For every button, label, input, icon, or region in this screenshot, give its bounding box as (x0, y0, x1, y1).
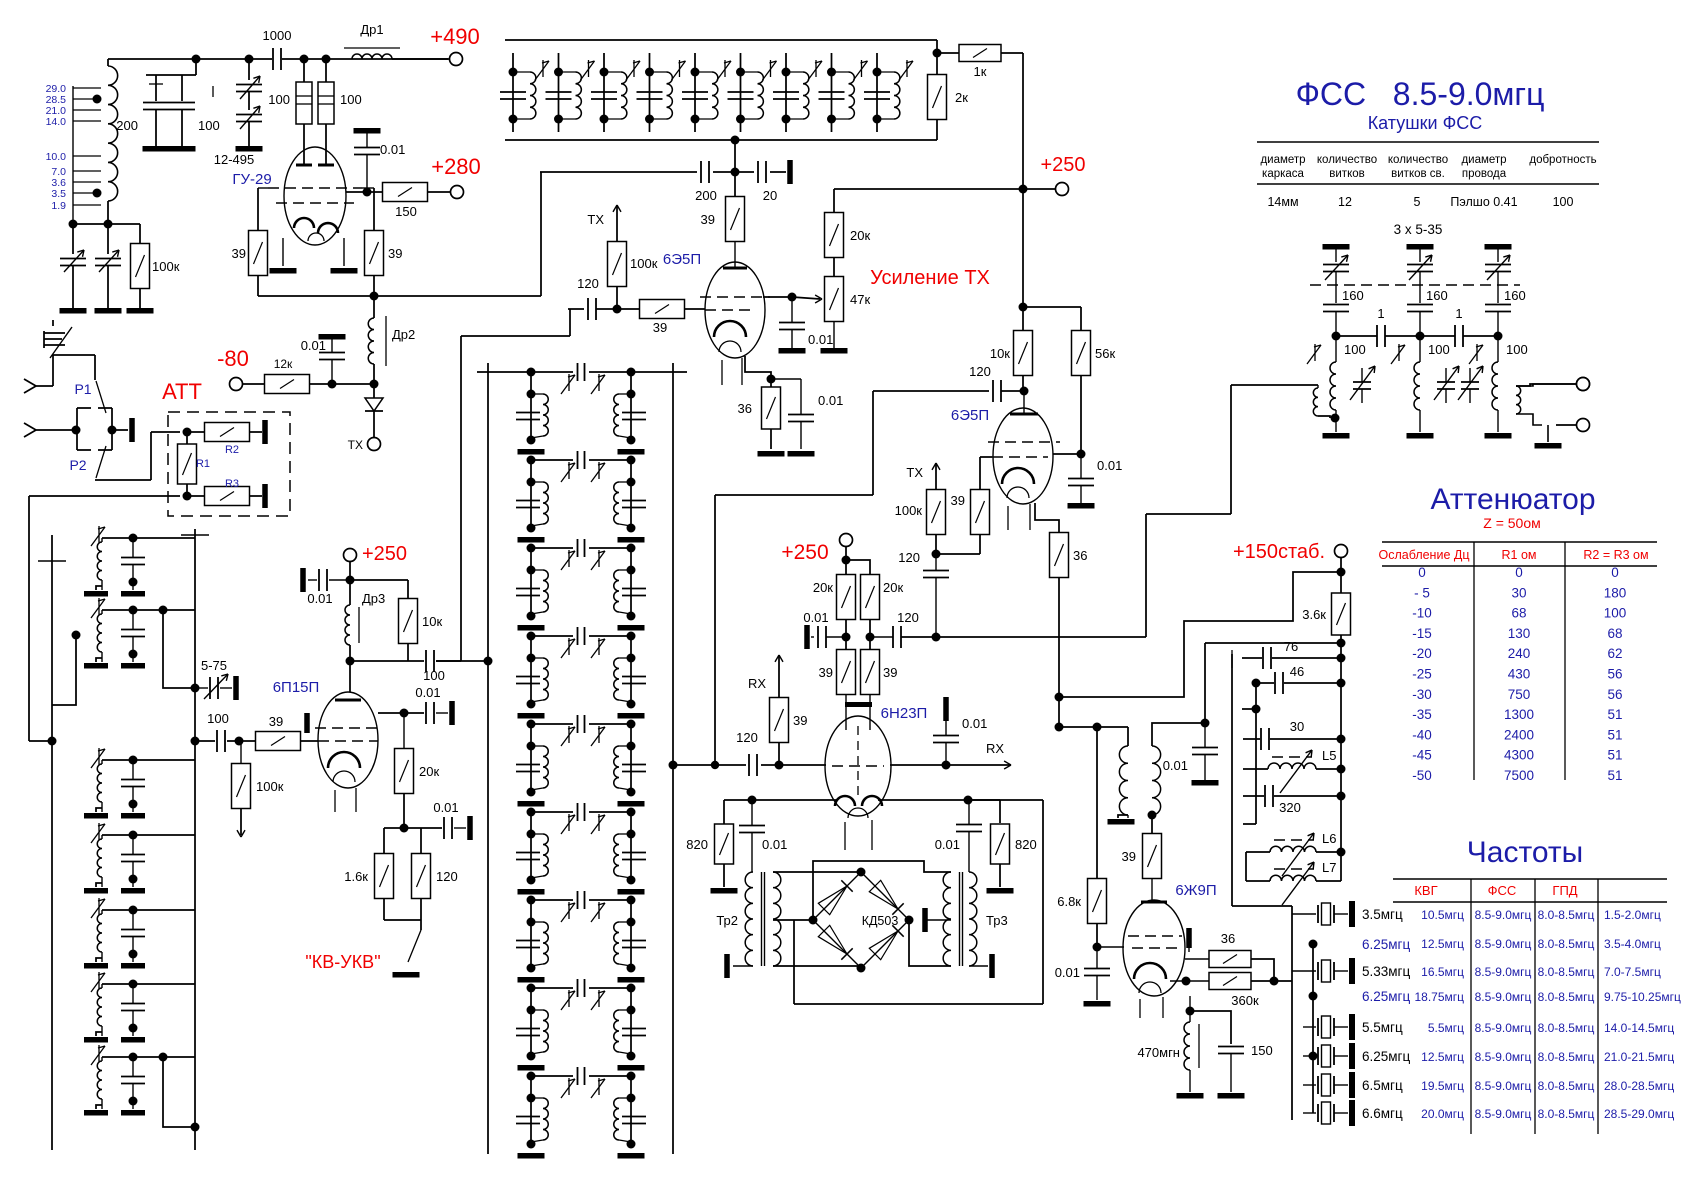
svg-text:3.6к: 3.6к (1302, 607, 1326, 622)
wire lsec1 cap lead2 (132, 565, 134, 590)
junction 1k node (933, 49, 942, 58)
wire osc 36 link (1185, 958, 1209, 960)
junction osc feed (1055, 723, 1064, 732)
wire midsec3 top a (531, 547, 573, 549)
terminator R2 (262, 420, 268, 444)
wire lsec6 gnd jog (96, 1032, 102, 1036)
svg-text:100к: 100к (630, 256, 658, 271)
trimmer lsec3 (91, 748, 105, 768)
svg-text:8.5-9.0мгц: 8.5-9.0мгц (1475, 1107, 1532, 1121)
junction bank tank 7 top (782, 68, 791, 77)
capacitor 320 (1265, 785, 1273, 807)
svg-text:20: 20 (763, 188, 777, 203)
variable capacitor 12-495 a (236, 85, 262, 92)
junction bank tank 8 bottom (827, 115, 836, 124)
junction bank tank 4 bottom (645, 115, 654, 124)
wire bank tank 9 line (876, 53, 878, 132)
svg-text:160: 160 (1342, 288, 1364, 303)
svg-text:6.25мгц: 6.25мгц (1362, 1049, 1410, 1064)
wire xtal6 out (1334, 1055, 1348, 1057)
wire midsec6 coilR bot (619, 876, 631, 878)
svg-text:160: 160 (1504, 288, 1526, 303)
wire midsec7 R1 (630, 900, 632, 968)
ground lsec2 coil (84, 663, 108, 669)
wire midsec6 R1 (630, 812, 632, 880)
junction midsec8 TR (627, 984, 636, 993)
svg-text:100: 100 (1553, 195, 1574, 209)
inductor Dr3 (345, 605, 350, 645)
ground midsec8 L (518, 1065, 545, 1071)
svg-text:68: 68 (1511, 606, 1526, 621)
arrow pot wiper (792, 295, 822, 303)
wire L5 row (1243, 768, 1268, 770)
anode bar L GU-29 (296, 164, 312, 167)
wire lsec2 coil lead (101, 610, 103, 614)
inductor bank tank 5 (712, 72, 718, 119)
svg-text:+250: +250 (1040, 154, 1085, 176)
svg-text:0.01: 0.01 (818, 393, 843, 408)
trimmer midsec6 R (591, 814, 605, 834)
svg-text:L7: L7 (1322, 860, 1336, 875)
wire xtal8 stub (1303, 1112, 1316, 1114)
inductor midsec3 R (614, 570, 619, 612)
capacitor 0.01 anode1 (779, 323, 805, 330)
junction midsec5 BL (527, 788, 536, 797)
rule FSS table top (1257, 141, 1599, 143)
wire bank coil bottom 9 (877, 118, 894, 120)
ground 820L (711, 888, 738, 894)
wire bank top rail (505, 39, 937, 41)
heater lead R st2 (1029, 504, 1031, 530)
svg-text:5-75: 5-75 (201, 658, 227, 673)
svg-text:"КВ-УКВ": "КВ-УКВ" (305, 952, 380, 972)
anode bar R GU-29 (318, 164, 334, 167)
junction xb2 (1309, 992, 1318, 1001)
inductor L5 (1268, 763, 1316, 769)
svg-text:3 x 5-35: 3 x 5-35 (1394, 222, 1443, 237)
wire midsec2 R1 (630, 460, 632, 528)
wire sig to rail (436, 660, 488, 662)
junction osc 0.01 (1201, 719, 1210, 728)
junction lsec4 b (129, 875, 138, 884)
svg-text:6.5мгц: 6.5мгц (1362, 1078, 1403, 1093)
trimmer bank tank 6 (763, 60, 777, 80)
svg-text:6.8к: 6.8к (1057, 894, 1081, 909)
wire xtal7 stub (1303, 1084, 1316, 1086)
svg-text:1: 1 (1455, 306, 1462, 321)
wire cml lead2 (751, 833, 753, 872)
junction midsec6 BL (527, 876, 536, 885)
wire midsec8 coilL top (531, 1009, 543, 1011)
svg-text:-15: -15 (1412, 626, 1432, 641)
wire bus row1 (1205, 642, 1341, 644)
capacitor 120 grid2 (923, 571, 949, 578)
terminal +250 mix (840, 534, 853, 547)
crystal 6.6мгц (1318, 1102, 1334, 1124)
wire cathode path st2 (1035, 503, 1059, 533)
ground midsec8 R (618, 1065, 645, 1071)
wire +150 path (1059, 572, 1341, 697)
ground FSS out (1535, 443, 1562, 449)
terminal +250 st1 (1056, 183, 1069, 196)
svg-text:8.0-8.5мгц: 8.0-8.5мгц (1538, 1021, 1595, 1035)
rule att v2 (1564, 542, 1566, 780)
wire bank to anode (734, 140, 736, 172)
svg-text:8.0-8.5мгц: 8.0-8.5мгц (1538, 937, 1595, 951)
junction bank tank 3 bottom (600, 115, 609, 124)
resistor 6.8k (1088, 879, 1107, 924)
inductor midsec3 L (543, 570, 548, 612)
wire 10k top lead (1022, 307, 1024, 331)
svg-text:39: 39 (793, 713, 807, 728)
capacitor 1 a (1377, 325, 1385, 347)
wire osc feed right (1152, 723, 1205, 746)
svg-text:12.5мгц: 12.5мгц (1421, 937, 1464, 951)
wire 0.01pa2 out (436, 712, 448, 714)
wire FSS b3 v4 (1497, 410, 1499, 432)
wire midsec9 R1 (630, 1076, 632, 1144)
junction rail grid pa (191, 737, 200, 746)
heater arc osc (1139, 982, 1161, 993)
capacitor midsec9 L (516, 1117, 540, 1124)
wire cath osc down (1189, 996, 1191, 1011)
resistor 820 R (991, 824, 1010, 864)
capacitor 0.01 oscg (1084, 969, 1110, 976)
terminator xtal5 (1349, 1014, 1355, 1040)
wire 56k down (1080, 375, 1082, 454)
junction midsec5 CL (527, 742, 536, 751)
wire L5 out (1316, 768, 1341, 770)
cathode arc osc (1134, 963, 1166, 979)
svg-text:АТТ: АТТ (162, 379, 202, 404)
wire FSS c2 (1420, 335, 1455, 337)
wire 0.01 screen lead (366, 133, 368, 147)
svg-text:10.0: 10.0 (46, 151, 67, 163)
capacitor coupling midsec9 (578, 1067, 585, 1085)
terminator xtal3 (1349, 958, 1355, 984)
ground 100k antenna (127, 308, 154, 314)
wire path grid1 v (460, 336, 462, 661)
ground 0.01 screen flipped (354, 128, 381, 134)
wire midsec1 coilL top (531, 393, 543, 395)
screen line GU-29 (276, 202, 354, 204)
svg-text:0.01: 0.01 (301, 338, 326, 353)
wire midsec5 L1 (530, 724, 532, 792)
junction grid2 bot (932, 550, 941, 559)
svg-text:16.5мгц: 16.5мгц (1421, 965, 1464, 979)
junction midsec9 CL (527, 1094, 536, 1103)
tube 6E5P 1 (705, 262, 765, 358)
wire 150 gnd lead (1230, 1054, 1232, 1092)
terminator 20 (787, 160, 793, 184)
terminator 0.01 pa2 (449, 701, 455, 725)
svg-text:120: 120 (898, 550, 920, 565)
svg-text:150: 150 (1251, 1043, 1273, 1058)
junction FSS 2 (1416, 332, 1425, 341)
svg-text:8.0-8.5мгц: 8.0-8.5мгц (1538, 1050, 1595, 1064)
junction bank tank 5 bottom (691, 115, 700, 124)
junction midsec2 BL (527, 524, 536, 533)
wire 0.01rx lead (945, 714, 947, 735)
trimmer midsec1 L (561, 374, 575, 394)
svg-text:36: 36 (1221, 931, 1235, 946)
ground midsec6 L (518, 889, 545, 895)
wire FSS b3 v1 (1497, 249, 1499, 262)
wire leftcol rail L (51, 535, 53, 1150)
grid2 line pa (318, 740, 378, 742)
tick crossing 76 (1231, 650, 1233, 668)
capacitor bank tank 5 (682, 92, 708, 99)
wire 0.01osc lead2 (1204, 755, 1206, 780)
terminal FSS out1 (1577, 378, 1590, 391)
heater lead mix L (844, 822, 846, 850)
resistor 3.6k (1332, 593, 1351, 635)
wire bank tank 8 line (831, 53, 833, 132)
svg-text:6Н23П: 6Н23П (881, 705, 928, 722)
grid line mix (832, 765, 884, 767)
svg-text:51: 51 (1607, 748, 1622, 763)
svg-text:820: 820 (1015, 837, 1037, 852)
wire lsec6 coil gnd (101, 1026, 103, 1036)
wire midsec8 R1 (630, 988, 632, 1056)
junction midsec7 CL (527, 918, 536, 927)
heater arc GU-29 (308, 233, 324, 241)
wire xtal3 stub (1292, 970, 1316, 972)
rule att top (1382, 541, 1657, 543)
junction +280 (363, 188, 372, 197)
wire grid L lead (258, 187, 268, 189)
capacitor 120 mix (749, 754, 757, 776)
resistor 47k pot (825, 277, 844, 322)
svg-text:36: 36 (738, 401, 752, 416)
wire mix bottom L (793, 920, 795, 1004)
junction midsec9 TR (627, 1072, 636, 1081)
capacitor midsec4 R (622, 677, 646, 684)
heater arc pa (333, 771, 355, 782)
wire 46 row (1256, 682, 1274, 684)
capacitor coupling midsec7 (578, 891, 585, 909)
wire +250mix右 (846, 560, 870, 575)
junction midsec7 BR (627, 964, 636, 973)
wire tap 10.0 (73, 155, 101, 157)
svg-text:10.5мгц: 10.5мгц (1421, 908, 1464, 922)
capacitor bank tank 7 (773, 92, 799, 99)
wire FSS b1 v4 (1335, 410, 1337, 432)
junction 46 L (1252, 679, 1261, 688)
svg-text:R1: R1 (196, 458, 210, 470)
capacitor coupling midsec8 (578, 979, 585, 997)
svg-text:51: 51 (1607, 707, 1622, 722)
junction lsec1 b (129, 578, 138, 587)
wire Tr2 sec bot link (773, 965, 861, 967)
wire 2k bottom (936, 119, 938, 140)
wire bank coil top 4 (650, 71, 667, 73)
wire 12-495 gnd lead (248, 122, 250, 146)
wire bank coil top 5 (695, 71, 712, 73)
heater lead R 6E5P1 (741, 358, 743, 385)
resistor 39 mix (770, 698, 789, 743)
junction bias A (328, 380, 337, 389)
inductor bank tank 1 (530, 72, 536, 119)
ground cap100 (169, 146, 196, 152)
junction rail 5-75 (191, 684, 200, 693)
junction bank tank 6 bottom (736, 115, 745, 124)
wire inj to FSS (1231, 384, 1318, 386)
svg-text:0.01: 0.01 (307, 591, 332, 606)
arrow 12-495 b (240, 106, 260, 129)
svg-text:39: 39 (1122, 849, 1136, 864)
svg-text:3.5-4.0мгц: 3.5-4.0мгц (1604, 937, 1661, 951)
wire 120st2 out (1001, 390, 1024, 392)
capacitor 0.01 mix (818, 626, 826, 648)
inductor FSS input (1313, 388, 1318, 416)
wire 47k bottom (833, 321, 835, 348)
wire grid R down (373, 188, 375, 231)
wire midsec4 R1 (630, 636, 632, 704)
svg-text:0.01: 0.01 (1055, 965, 1080, 980)
svg-text:0: 0 (1418, 565, 1426, 580)
inductor bank tank 7 (803, 72, 809, 119)
junction midsec3 BR (627, 612, 636, 621)
svg-text:6Э5П: 6Э5П (663, 251, 701, 268)
wire lsec6 top (102, 983, 195, 985)
resistor 820 L (715, 824, 734, 864)
wire FSS c1b (1385, 335, 1420, 337)
resistor 1k (959, 45, 1001, 62)
wire midsec5 coilR top (619, 745, 631, 747)
wire R3 right lead (249, 495, 262, 497)
resistor 36 cath1 (762, 387, 781, 429)
wire div to node (870, 636, 893, 638)
svg-text:30: 30 (1290, 719, 1304, 734)
wire Dr1 core (344, 47, 400, 49)
wire path grid1 h (461, 335, 570, 337)
wire midsec6 coilL bot (531, 876, 543, 878)
wire cath1 (742, 362, 771, 379)
cathode arc 6E5P1 (714, 321, 746, 337)
svg-text:Тр3: Тр3 (986, 913, 1008, 928)
wire 120 drop (872, 391, 874, 495)
rule freq v3 (1597, 879, 1599, 1134)
svg-text:9.75-10.25мгц: 9.75-10.25мгц (1604, 990, 1681, 1004)
ground 0.01 anode1 (779, 348, 806, 354)
svg-text:+150стаб.: +150стаб. (1233, 541, 1325, 563)
wire varcap1 lead (72, 224, 74, 254)
resistor 39 osc (1143, 834, 1162, 879)
wire midsec4 top a (531, 635, 573, 637)
wire midsec2 top b (589, 459, 631, 461)
terminal FSS out2 (1577, 419, 1590, 432)
svg-text:20.0мгц: 20.0мгц (1421, 1107, 1464, 1121)
wire midsec4 coilL bot (531, 700, 543, 702)
svg-text:P1: P1 (74, 381, 91, 397)
junction kat pa (400, 824, 409, 833)
inductor L7 (1270, 875, 1316, 881)
wire osc prim gnd (1118, 815, 1128, 818)
wire FSS out bot (1516, 414, 1542, 425)
trimmer midsec3 L (561, 550, 575, 570)
svg-text:6Э5П: 6Э5П (951, 407, 989, 424)
resistor 36 st2 (1050, 533, 1069, 578)
svg-text:100: 100 (268, 92, 290, 107)
svg-text:7500: 7500 (1504, 768, 1534, 783)
capacitor 120 st2 (993, 380, 1001, 402)
wire FSS b2 v2 (1419, 272, 1421, 303)
terminal +490 (450, 53, 463, 66)
inductor midsec4 R (614, 658, 619, 700)
junction ATT rail (48, 737, 57, 746)
junction lsec2 cap (129, 606, 138, 615)
wire lsec2 cap lead2 (132, 637, 134, 662)
junction midsec7 CR (627, 918, 636, 927)
svg-text:0: 0 (1515, 565, 1523, 580)
trimmer bank tank 9 (899, 60, 913, 80)
wire lsec4 cap lead2 (132, 862, 134, 887)
junction top rail B (245, 55, 254, 64)
ground cap200 (143, 146, 170, 152)
wire 36 gnd (770, 429, 772, 449)
wire FSS out2 lead (1556, 424, 1576, 426)
terminator 0.01 mix (804, 625, 810, 649)
wire midsec8 L1 (530, 988, 532, 1056)
wire 39pa to tube (300, 740, 318, 742)
resistor 39 grid L (249, 231, 268, 276)
wire cap feed row (146, 74, 196, 76)
wire ant1 up (52, 355, 54, 386)
wire bank coil top 9 (877, 71, 894, 73)
svg-text:+250: +250 (362, 543, 407, 565)
svg-text:10к: 10к (990, 346, 1010, 361)
wire midsec4 coilR top (619, 657, 631, 659)
ground lsec3 coil (84, 813, 108, 819)
variable capacitor FSS 3 (1485, 265, 1511, 272)
wire ATT out right (29, 740, 52, 742)
svg-text:ФСС: ФСС (1488, 883, 1517, 898)
junction bias B (370, 380, 379, 389)
inductor midsec6 L (543, 834, 548, 876)
capacitor lsec4 (121, 855, 145, 862)
anode bar 6E5P1 (723, 267, 747, 270)
wire 0.01 bias lead2 (331, 360, 333, 384)
svg-text:6.6мгц: 6.6мгц (1362, 1106, 1403, 1121)
rule att mid (1382, 565, 1657, 567)
junction grid1 (613, 305, 622, 314)
terminator Tr2 gnd (724, 954, 730, 978)
wire cath osc lead (1185, 981, 1187, 1011)
wire 320 out (1274, 795, 1341, 797)
svg-text:1.9: 1.9 (51, 200, 66, 212)
anode bar 6E5P2 (1010, 413, 1038, 416)
wire cap100 lead (181, 75, 183, 101)
junction midsec4 TL (527, 632, 536, 641)
wire Tr2 core a (761, 872, 763, 966)
dashes L6 (1274, 839, 1314, 841)
svg-text:430: 430 (1508, 667, 1531, 682)
tube 6P15P (318, 692, 378, 788)
wire midsec6 coilL top (531, 833, 543, 835)
heater lead L pa (334, 790, 336, 812)
wire screen R down (343, 238, 345, 266)
trimmer midsec7 R (591, 902, 605, 922)
rule FSS table mid (1257, 183, 1599, 185)
inductor lsec3 (97, 764, 102, 802)
junction +250 mix (842, 556, 851, 565)
svg-text:RX: RX (748, 676, 766, 691)
wire grid bus (258, 295, 541, 297)
svg-text:ТХ: ТХ (906, 465, 923, 480)
wire kat row (384, 827, 442, 829)
svg-text:56к: 56к (1095, 346, 1115, 361)
